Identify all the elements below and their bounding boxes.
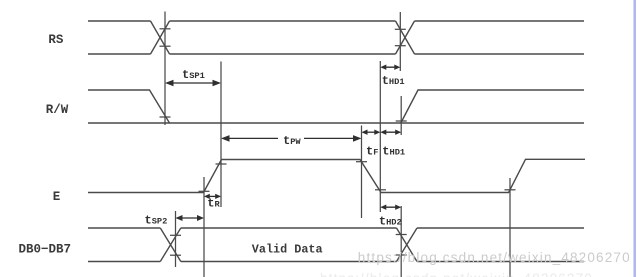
svg-text:https://blog.csdn.net/weixin_4: https://blog.csdn.net/weixin_48206270 [320, 271, 593, 277]
svg-text:tF: tF [366, 145, 378, 159]
svg-text:tR: tR [207, 196, 220, 210]
svg-text:R/W: R/W [46, 103, 69, 117]
svg-text:tSP1: tSP1 [182, 68, 205, 82]
svg-text:tHD1: tHD1 [382, 74, 405, 88]
svg-text:tSP2: tSP2 [145, 213, 168, 227]
svg-text:tPW: tPW [283, 134, 301, 148]
svg-text:tHD2: tHD2 [379, 215, 402, 229]
svg-text:RS: RS [48, 33, 64, 47]
svg-text:tHD1: tHD1 [382, 145, 405, 159]
svg-text:https://blog.csdn.net/weixin_4: https://blog.csdn.net/weixin_48206270 [358, 250, 631, 265]
svg-text:Valid Data: Valid Data [252, 243, 323, 257]
svg-text:DB0−DB7: DB0−DB7 [19, 242, 72, 256]
svg-text:E: E [53, 190, 61, 204]
